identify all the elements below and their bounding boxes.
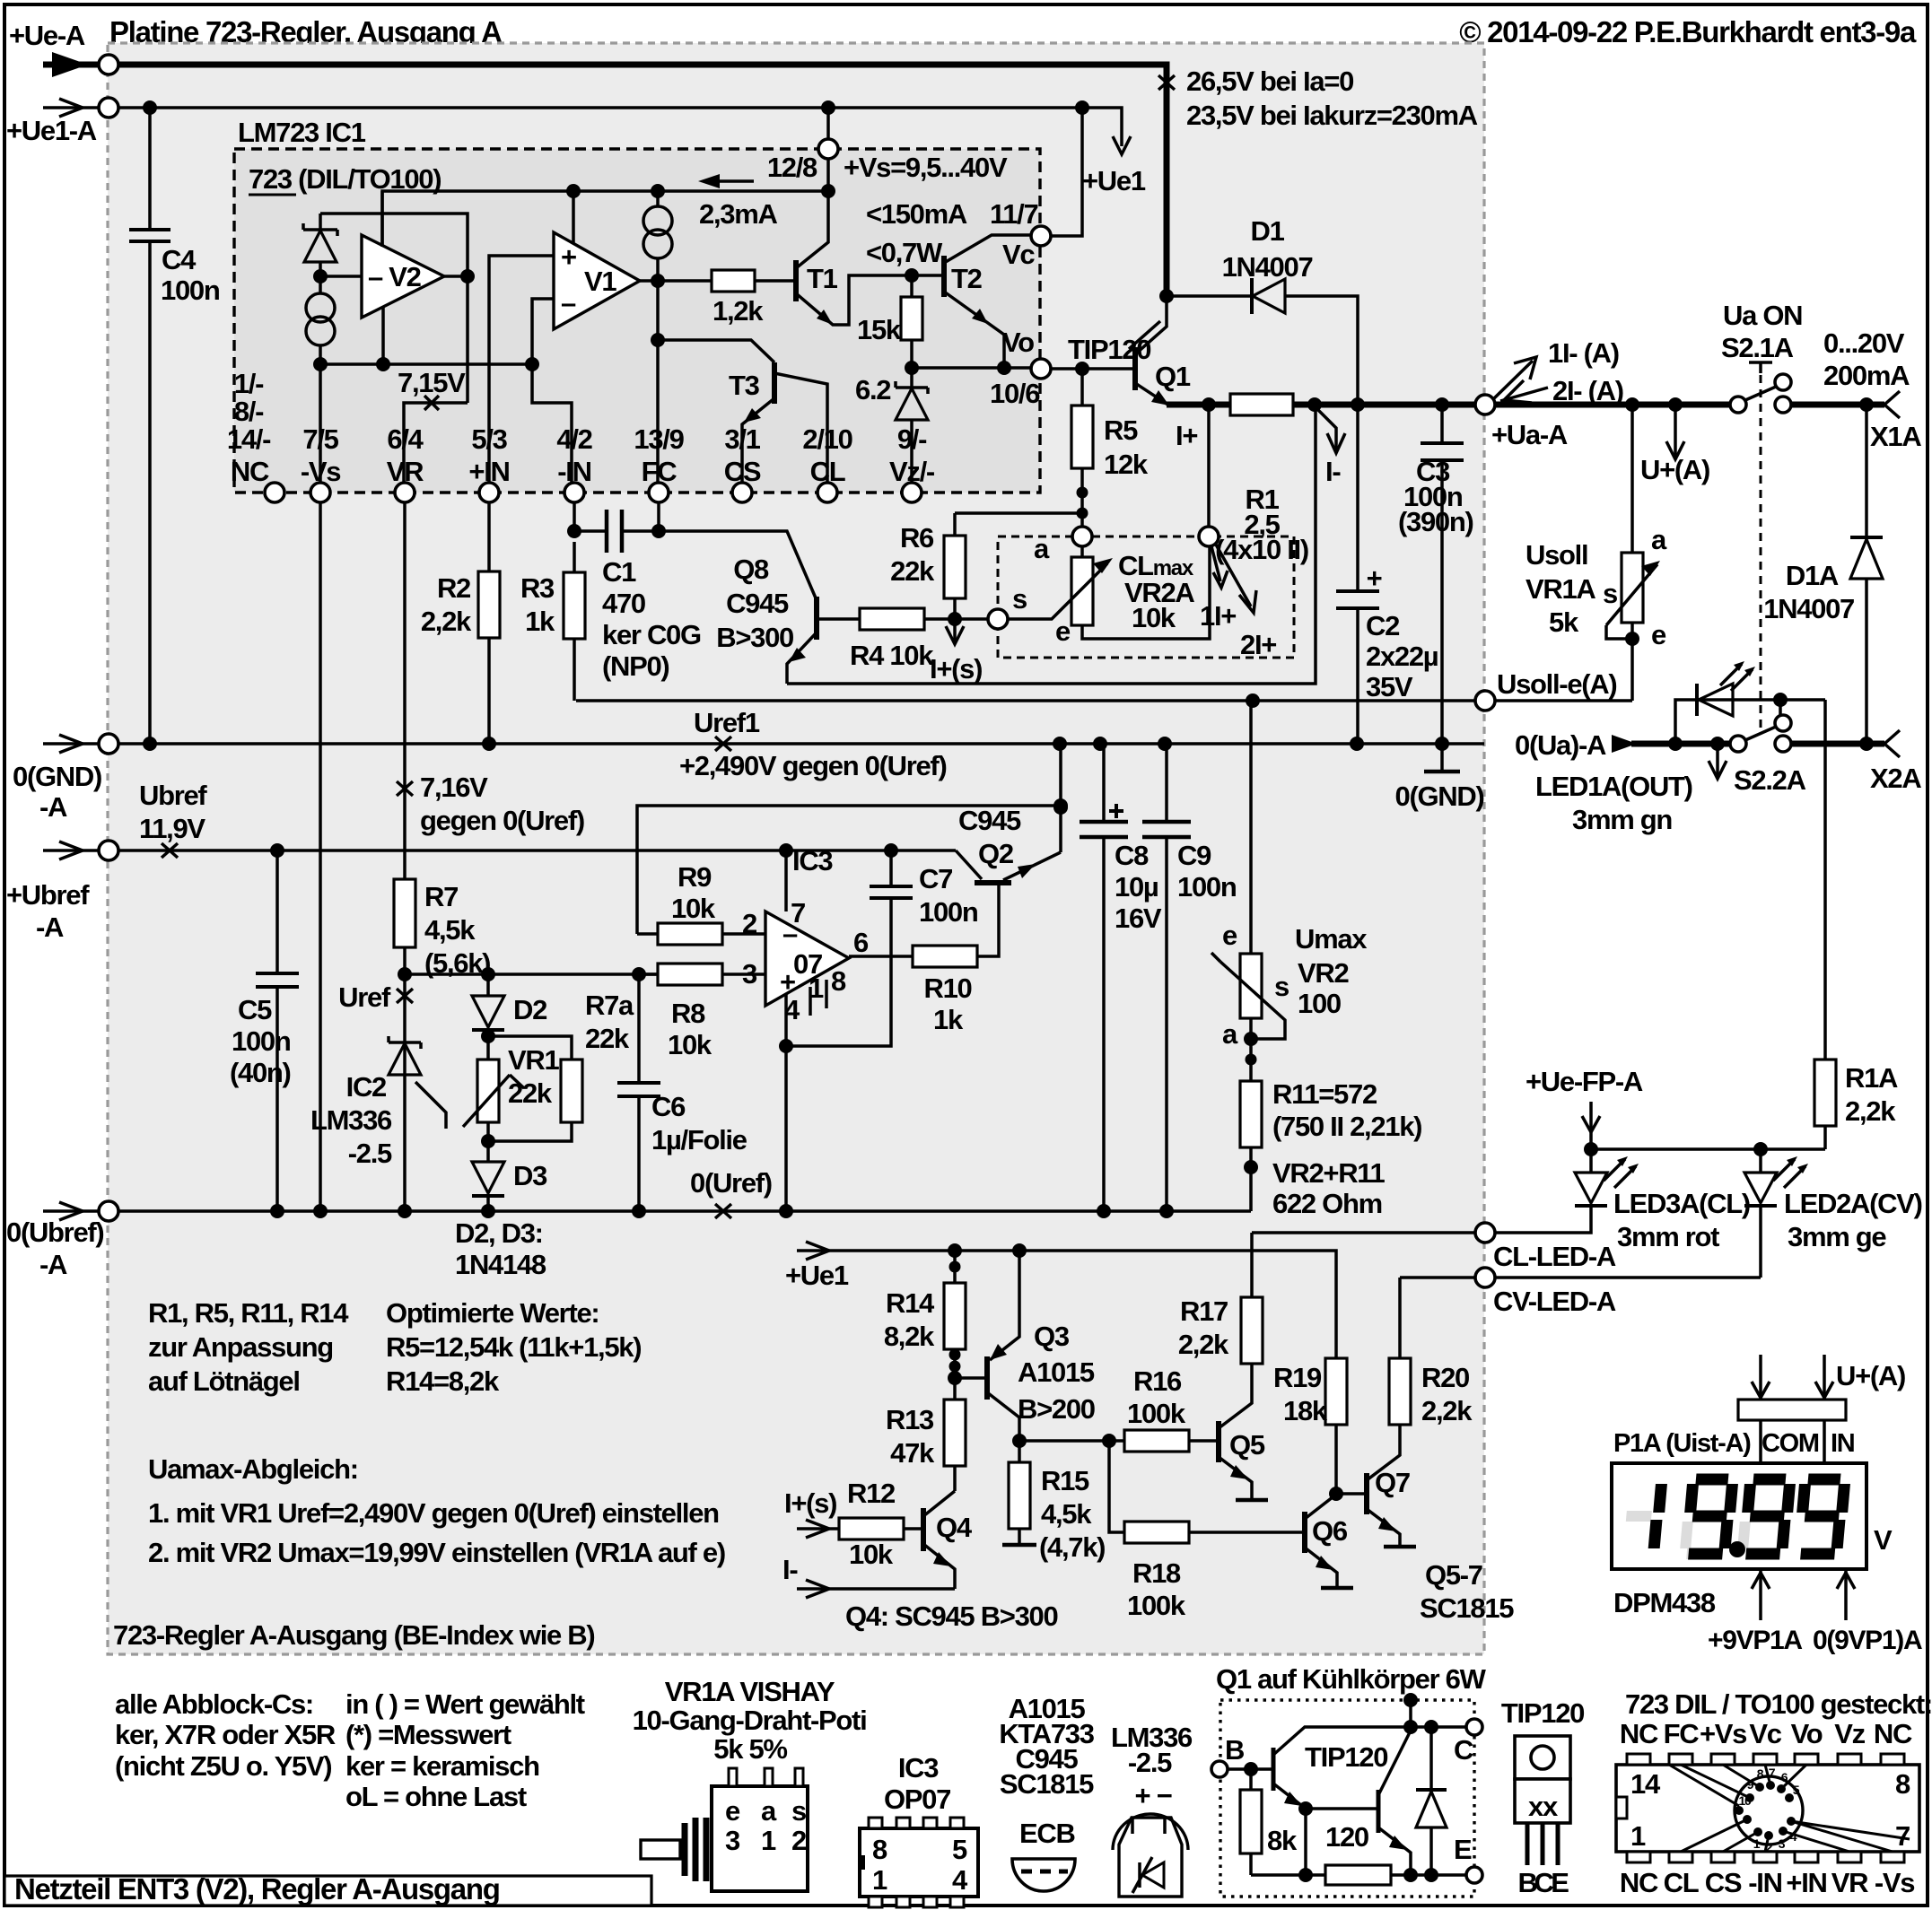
- svg-text:35V: 35V: [1366, 671, 1413, 702]
- resistor R12 10k: [839, 1518, 904, 1539]
- svg-text:6: 6: [853, 927, 869, 958]
- capacitor C9 100n: [1165, 744, 1168, 1211]
- LED3A(CL): [1495, 1149, 1591, 1233]
- svg-text:DPM438: DPM438: [1613, 1587, 1716, 1618]
- transistor Q8 C945: [659, 531, 817, 600]
- resistor R11: [1240, 1081, 1262, 1147]
- svg-text:+Vs=9,5...40V: +Vs=9,5...40V: [844, 152, 1008, 183]
- current arrow 12/8: [718, 179, 754, 183]
- resistor R7 4,5k: [403, 947, 407, 1041]
- svg-text:(nicht Z5U o. Y5V): (nicht Z5U o. Y5V): [115, 1750, 331, 1782]
- node 0(Uref) marker: [715, 1204, 731, 1218]
- svg-text:a: a: [1222, 1018, 1238, 1050]
- svg-text:R9: R9: [678, 861, 712, 893]
- Q8 base wire: [817, 617, 860, 621]
- transistor Q6: [1302, 1512, 1307, 1553]
- resistor R20 2,2k: [1398, 1278, 1402, 1358]
- svg-text:SC1815: SC1815: [1420, 1592, 1514, 1624]
- +Vs pin circle top edge: [826, 108, 830, 191]
- svg-text:<0,7W: <0,7W: [866, 237, 943, 268]
- svg-text:X2A: X2A: [1870, 763, 1921, 794]
- svg-text:Q5-7: Q5-7: [1425, 1559, 1482, 1591]
- Usoll-e(A) line: [576, 699, 1476, 702]
- svg-text:NC: NC: [231, 456, 269, 487]
- svg-text:4/2: 4/2: [556, 423, 591, 455]
- svg-text:NC: NC: [1620, 1867, 1658, 1898]
- svg-text:Ubref: Ubref: [139, 780, 207, 811]
- svg-text:+Ua-A: +Ua-A: [1491, 419, 1568, 450]
- svg-text:+: +: [1367, 563, 1382, 594]
- svg-text:8: 8: [1895, 1768, 1910, 1800]
- FC pin stub: [657, 502, 660, 531]
- +Ue1 lower rail: [827, 1251, 1336, 1358]
- svg-text:C5: C5: [238, 994, 272, 1025]
- 8k resistor: [1249, 1769, 1253, 1875]
- svg-text:622 Ohm: 622 Ohm: [1272, 1188, 1382, 1219]
- resistor R16 100k: [1124, 1430, 1189, 1452]
- svg-text:11,9V: 11,9V: [139, 813, 205, 844]
- svg-text:120: 120: [1325, 1821, 1368, 1853]
- svg-text:R11=572: R11=572: [1272, 1078, 1377, 1110]
- svg-text:100n: 100n: [919, 896, 978, 928]
- transistor Q3 A1015: [948, 1371, 962, 1385]
- svg-text:1I- (A): 1I- (A): [1548, 337, 1619, 369]
- svg-text:(750 II 2,21k): (750 II 2,21k): [1272, 1111, 1421, 1142]
- resistor R3 1k: [573, 542, 576, 701]
- transistor Q7: [1336, 1492, 1367, 1496]
- svg-text:NC: NC: [1874, 1718, 1912, 1749]
- svg-text:22k: 22k: [890, 555, 935, 587]
- svg-text:10k: 10k: [671, 893, 716, 924]
- svg-text:Usoll-e(A): Usoll-e(A): [1497, 668, 1616, 700]
- svg-text:e: e: [1651, 619, 1666, 650]
- svg-text:200mA: 200mA: [1823, 360, 1910, 391]
- transistor Q4: [921, 1508, 926, 1551]
- svg-text:+Ue1: +Ue1: [785, 1260, 849, 1291]
- resistor R14 8,2k: [953, 1251, 957, 1378]
- transistor Q5: [1216, 1421, 1221, 1462]
- svg-text:IN: IN: [1831, 1429, 1854, 1458]
- svg-text:+Ubref: +Ubref: [6, 879, 90, 911]
- svg-text:-IN: -IN: [557, 456, 590, 487]
- wire GND tap: [1059, 744, 1062, 852]
- svg-text:+Ue-A: +Ue-A: [9, 20, 85, 51]
- resistor R19 18k: [1334, 1425, 1338, 1494]
- switch S2.2A: [1730, 736, 1746, 752]
- +Ue1 feed arrow: [797, 1249, 827, 1252]
- svg-text:VR: VR: [1831, 1867, 1868, 1898]
- capacitor C5 100n: [275, 850, 279, 1211]
- X1A terminal: [1884, 391, 1900, 418]
- svg-text:IC3: IC3: [792, 845, 833, 877]
- svg-text:CL-LED-A: CL-LED-A: [1493, 1241, 1616, 1272]
- svg-text:(4,7k): (4,7k): [1039, 1531, 1105, 1563]
- pin7 wire: [784, 850, 788, 911]
- svg-text:0...20V: 0...20V: [1823, 327, 1905, 359]
- node 7,16V marker: [397, 781, 413, 796]
- svg-text:15k: 15k: [857, 314, 902, 345]
- svg-text:B: B: [1225, 1734, 1244, 1766]
- svg-text:<150mA: <150mA: [866, 198, 967, 230]
- svg-text:100n: 100n: [161, 275, 220, 306]
- LED feed line: [1591, 1147, 1825, 1151]
- underline of 723: [249, 194, 296, 196]
- svg-text:Optimierte Werte:: Optimierte Werte:: [386, 1297, 599, 1329]
- LED1A(OUT): [1675, 700, 1825, 744]
- zener IC2 LM336: [403, 1041, 407, 1211]
- R9 feedback line: [637, 806, 1061, 934]
- svg-text:100k: 100k: [1127, 1590, 1186, 1621]
- svg-text:R10: R10: [924, 972, 972, 1004]
- svg-text:VR1A: VR1A: [1525, 573, 1595, 605]
- Usoll vertical to VR2: [1249, 701, 1253, 954]
- svg-text:10-Gang-Draht-Poti: 10-Gang-Draht-Poti: [633, 1705, 867, 1736]
- node Uref marker: [397, 989, 413, 1003]
- resistor R4 10k: [860, 608, 924, 630]
- -Vs pin column: [319, 502, 322, 1211]
- potentiometer VR2A: [1080, 546, 1084, 557]
- svg-text:X1A: X1A: [1870, 421, 1921, 452]
- svg-text:VR1: VR1: [508, 1044, 559, 1076]
- 0(Ubref) 0(Uref) rail: [118, 1209, 1251, 1213]
- svg-text:© 2014-09-22 P.E.Burkhardt ent: © 2014-09-22 P.E.Burkhardt ent3-9a: [1459, 15, 1917, 48]
- svg-text:V: V: [1874, 1524, 1893, 1556]
- svg-text:Netzteil ENT3 (V2), Regler A-A: Netzteil ENT3 (V2), Regler A-Ausgang: [14, 1872, 500, 1906]
- Vo node wire to Q1 base: [1051, 367, 1135, 371]
- svg-text:R14=8,2k: R14=8,2k: [386, 1365, 500, 1397]
- svg-text:10k: 10k: [1132, 602, 1176, 633]
- svg-text:FC: FC: [642, 456, 678, 487]
- Vc to +Ue1 link: [1050, 108, 1082, 236]
- resistor R1 2,5: [1230, 394, 1293, 415]
- svg-text:P1A (Uist-A): P1A (Uist-A): [1613, 1429, 1751, 1458]
- svg-text:C2: C2: [1366, 610, 1399, 641]
- node: [313, 269, 328, 283]
- svg-text:R14: R14: [886, 1287, 935, 1319]
- svg-text:C4: C4: [162, 244, 197, 275]
- svg-text:5: 5: [952, 1834, 967, 1865]
- svg-text:e: e: [1055, 615, 1071, 647]
- svg-text:1N4148: 1N4148: [455, 1249, 546, 1280]
- svg-text:R12: R12: [847, 1478, 895, 1509]
- +Ua-A thick bus: [1167, 402, 1476, 408]
- svg-text:I+(s): I+(s): [930, 653, 982, 685]
- svg-text:4,5k: 4,5k: [1041, 1498, 1092, 1530]
- svg-text:s: s: [791, 1795, 806, 1827]
- svg-text:NC: NC: [1620, 1718, 1658, 1749]
- pin circles bottom edge: [265, 483, 284, 502]
- svg-text:Q4: SC945 B>300: Q4: SC945 B>300: [845, 1600, 1057, 1632]
- pin4 wire with C7 return: [784, 994, 788, 1211]
- capacitor C3 100n: [1440, 405, 1444, 744]
- svg-text:CL: CL: [1664, 1867, 1699, 1898]
- svg-text:Uref1: Uref1: [694, 707, 760, 738]
- svg-text:LM336: LM336: [310, 1104, 392, 1136]
- svg-text:8: 8: [872, 1834, 887, 1865]
- svg-text:2: 2: [791, 1825, 806, 1856]
- svg-text:0(Ua)-A: 0(Ua)-A: [1515, 729, 1606, 761]
- svg-text:a: a: [1034, 533, 1050, 564]
- x marker 26,5V: [1158, 75, 1175, 90]
- svg-text:D3: D3: [513, 1160, 547, 1191]
- FC column: [656, 281, 660, 493]
- svg-text:470: 470: [602, 588, 645, 619]
- svg-text:T2: T2: [951, 263, 982, 294]
- svg-text:Ua ON: Ua ON: [1723, 300, 1802, 331]
- svg-text:a: a: [761, 1795, 777, 1827]
- svg-text:+: +: [561, 241, 576, 273]
- svg-text:3mm gn: 3mm gn: [1572, 804, 1672, 835]
- V1 output node: [640, 279, 712, 283]
- svg-text:R2: R2: [437, 572, 470, 604]
- svg-text:Vo: Vo: [1002, 327, 1034, 358]
- svg-text:R3: R3: [520, 572, 555, 604]
- svg-text:Vc: Vc: [1749, 1718, 1781, 1749]
- svg-text:R18: R18: [1132, 1557, 1181, 1589]
- resistor R1A 2,2k: [1823, 700, 1827, 1149]
- svg-text:-A: -A: [39, 791, 67, 823]
- resistor R7a 22k: [488, 1036, 572, 1060]
- svg-text:R4 10k: R4 10k: [850, 640, 934, 671]
- internal top rail: [382, 191, 828, 245]
- svg-text:Vz/-: Vz/-: [889, 456, 935, 487]
- svg-text:2: 2: [742, 908, 756, 939]
- svg-text:7,16V: 7,16V: [420, 772, 488, 803]
- svg-text:S2.2A: S2.2A: [1734, 764, 1806, 796]
- svg-text:1: 1: [1630, 1820, 1646, 1852]
- svg-text:I+(s): I+(s): [784, 1487, 836, 1519]
- svg-text:4: 4: [952, 1864, 968, 1896]
- svg-text:C945: C945: [958, 805, 1021, 836]
- 1I+ 2I+ arrows: [1211, 546, 1220, 581]
- svg-text:1N4007: 1N4007: [1763, 593, 1854, 624]
- svg-text:R5=12,54k (11k+1,5k): R5=12,54k (11k+1,5k): [386, 1331, 641, 1363]
- CLmax VR2A dashed box: [998, 536, 1294, 658]
- X2A terminal: [1884, 730, 1900, 757]
- svg-text:I-: I-: [782, 1554, 798, 1585]
- svg-text:V1: V1: [584, 266, 616, 297]
- U+(A) annotation arrow: [1674, 405, 1677, 456]
- svg-text:B>300: B>300: [716, 622, 793, 653]
- svg-text:R19: R19: [1273, 1362, 1322, 1393]
- svg-text:100n: 100n: [1177, 871, 1237, 903]
- svg-text:Umax: Umax: [1295, 923, 1368, 955]
- capacitor C6 1u/Folie: [637, 974, 641, 1211]
- svg-text:– V2: – V2: [368, 261, 421, 292]
- svg-text:12/8: 12/8: [767, 152, 817, 183]
- Platine PCB region: [108, 43, 1484, 1654]
- svg-text:R5: R5: [1104, 414, 1138, 446]
- transistor T3: [658, 340, 774, 362]
- svg-text:0(GND): 0(GND): [13, 761, 101, 792]
- svg-text:D1: D1: [1250, 215, 1284, 247]
- svg-text:E: E: [1454, 1834, 1472, 1865]
- svg-text:+9VP1A: +9VP1A: [1708, 1626, 1802, 1655]
- svg-text:10/6: 10/6: [990, 378, 1040, 409]
- diode in Kuehlkoerper: [1429, 1727, 1433, 1875]
- svg-text:Q2: Q2: [978, 838, 1013, 869]
- svg-text:7,15V: 7,15V: [398, 367, 466, 398]
- svg-text:2/10: 2/10: [802, 423, 852, 455]
- svg-text:3mm ge: 3mm ge: [1788, 1221, 1886, 1252]
- svg-text:2I+: 2I+: [1240, 629, 1276, 660]
- ground 0(GND): [1440, 744, 1444, 772]
- I+ wire down to CLmax box: [1207, 405, 1211, 527]
- svg-text:FC: FC: [1664, 1718, 1700, 1749]
- svg-text:CS: CS: [1705, 1867, 1742, 1898]
- svg-text:A1015: A1015: [1018, 1356, 1095, 1388]
- svg-text:1: 1: [872, 1864, 887, 1896]
- -IN column to C1: [573, 502, 576, 531]
- resistor R8 10k: [639, 972, 658, 976]
- svg-text:(390n): (390n): [1398, 506, 1473, 537]
- svg-text:+ −: + −: [1135, 1780, 1172, 1811]
- svg-text:TIP120: TIP120: [1068, 334, 1150, 365]
- svg-text:2,2k: 2,2k: [1421, 1395, 1473, 1426]
- svg-text:47k: 47k: [890, 1437, 935, 1469]
- svg-text:a: a: [1651, 524, 1667, 555]
- +Ue1 rail: [118, 108, 1122, 146]
- svg-text:1µ/Folie: 1µ/Folie: [651, 1124, 747, 1156]
- capacitor C8 10u: [1102, 744, 1106, 1211]
- svg-text:U+(A): U+(A): [1836, 1360, 1905, 1391]
- svg-text:1/-: 1/-: [234, 368, 264, 399]
- svg-text:3/1: 3/1: [724, 423, 760, 455]
- svg-text:R20: R20: [1421, 1362, 1469, 1393]
- Q8 emitter line to I- column: [787, 405, 1316, 684]
- 7-seg digits 19.99: [1626, 1479, 1845, 1557]
- svg-text:2,2k: 2,2k: [1845, 1095, 1896, 1127]
- svg-text:R6: R6: [900, 522, 934, 554]
- svg-text:VR: VR: [387, 456, 424, 487]
- transistor T2: [941, 256, 947, 297]
- +Ue-A thick bus wire: [118, 65, 1167, 296]
- svg-text:-Vs: -Vs: [1875, 1867, 1914, 1898]
- svg-text:R13: R13: [886, 1404, 934, 1435]
- svg-text:B>200: B>200: [1018, 1393, 1095, 1425]
- svg-text:(*) =Messwert: (*) =Messwert: [345, 1719, 511, 1750]
- svg-text:Q4: Q4: [936, 1512, 973, 1543]
- svg-text:Usoll: Usoll: [1525, 539, 1587, 571]
- svg-text:13/9: 13/9: [634, 423, 684, 455]
- svg-text:-A: -A: [36, 911, 64, 943]
- svg-text:100: 100: [1298, 988, 1341, 1019]
- Usoll-e wire outside: [1495, 699, 1632, 702]
- zener 6.2: [910, 368, 914, 388]
- node Uref1: [715, 737, 731, 751]
- transistor Q1 TIP120: [1132, 347, 1138, 390]
- svg-text:Uref: Uref: [338, 981, 391, 1013]
- svg-text:ker, X7R oder X5R: ker, X7R oder X5R: [115, 1719, 336, 1750]
- svg-text:0(9VP1)A: 0(9VP1)A: [1813, 1626, 1922, 1655]
- svg-text:10µ: 10µ: [1115, 871, 1158, 903]
- svg-text:26,5V bei Ia=0: 26,5V bei Ia=0: [1186, 65, 1353, 97]
- DPM438 panel meter: [1761, 1355, 1824, 1400]
- potentiometer VR2 Umax: [1240, 954, 1262, 1018]
- svg-text:2. mit VR2 Umax=19,99V einstel: 2. mit VR2 Umax=19,99V einstellen (VR1A …: [148, 1537, 725, 1568]
- svg-text:C7: C7: [919, 863, 952, 894]
- transistor T1: [793, 260, 799, 301]
- svg-text:R1, R5, R11, R14: R1, R5, R11, R14: [148, 1297, 349, 1329]
- 1I- 2I- annotation arrows: [1493, 361, 1533, 399]
- svg-text:Q1: Q1: [1155, 361, 1191, 392]
- svg-text:1,2k: 1,2k: [712, 295, 764, 327]
- svg-text:5k: 5k: [1549, 606, 1579, 638]
- potentiometer VR1 22k: [477, 1060, 499, 1122]
- svg-text:5/3: 5/3: [471, 423, 507, 455]
- svg-text:6.2: 6.2: [855, 374, 890, 406]
- svg-text:s: s: [1274, 971, 1289, 1002]
- resistor 15k: [910, 275, 914, 368]
- svg-text:+IN: +IN: [468, 456, 509, 487]
- svg-text:10k: 10k: [849, 1539, 894, 1570]
- svg-text:2I- (A): 2I- (A): [1552, 375, 1623, 406]
- Vo node line: [912, 366, 1030, 370]
- svg-text:TIP120: TIP120: [1501, 1697, 1584, 1729]
- bottom rail with 120 resistor: [1251, 1873, 1466, 1877]
- svg-text:+Vs: +Vs: [1700, 1718, 1746, 1749]
- resistor R6 22k: [955, 511, 1082, 515]
- svg-text:6/4: 6/4: [387, 423, 424, 455]
- V1 supply stub: [572, 191, 575, 244]
- I+(s) annotation arrow: [953, 619, 957, 641]
- svg-text:R15: R15: [1041, 1465, 1089, 1496]
- svg-text:8,2k: 8,2k: [884, 1321, 935, 1352]
- svg-text:LM723 IC1: LM723 IC1: [238, 117, 366, 148]
- V1 inv routing: [532, 299, 572, 493]
- wire zener top to V2 output column: [320, 214, 468, 403]
- svg-text:C: C: [1454, 1734, 1473, 1766]
- svg-text:gegen 0(Uref): gegen 0(Uref): [420, 805, 584, 836]
- diode D1A 1N4007: [1865, 405, 1868, 744]
- diode D1 1N4007: [1167, 294, 1252, 298]
- svg-text:s: s: [1603, 578, 1617, 609]
- resistor R9 10k: [637, 932, 658, 936]
- svg-text:2,2k: 2,2k: [1178, 1329, 1229, 1360]
- svg-text:2,2k: 2,2k: [421, 606, 472, 637]
- wire to V2 inverting input: [320, 275, 362, 278]
- op-amp V1: [554, 232, 640, 329]
- svg-text:COM: COM: [1762, 1429, 1819, 1458]
- svg-text:TIP120: TIP120: [1305, 1741, 1387, 1773]
- svg-text:1N4007: 1N4007: [1222, 251, 1313, 283]
- svg-text:8/-: 8/-: [234, 396, 264, 427]
- svg-text:22k: 22k: [508, 1077, 553, 1109]
- resistor R18 100k: [1109, 1441, 1124, 1532]
- svg-text:3: 3: [725, 1825, 740, 1856]
- svg-text:0(GND): 0(GND): [1395, 781, 1484, 812]
- svg-text:CS: CS: [724, 456, 761, 487]
- resistor R5 12k: [1080, 369, 1084, 406]
- svg-text:zur Anpassung: zur Anpassung: [148, 1331, 333, 1363]
- svg-text:CL: CL: [810, 456, 845, 487]
- node dots top rail: [566, 184, 581, 198]
- svg-text:D2: D2: [513, 994, 546, 1025]
- svg-text:C1: C1: [602, 556, 636, 588]
- svg-text:100k: 100k: [1127, 1398, 1186, 1429]
- svg-text:(40n): (40n): [230, 1057, 291, 1088]
- svg-text:VR2+R11: VR2+R11: [1272, 1157, 1386, 1189]
- svg-text:1k: 1k: [525, 606, 555, 637]
- svg-text:1. mit VR1 Uref=2,490V gegen 0: 1. mit VR1 Uref=2,490V gegen 0(Uref) ein…: [148, 1497, 719, 1529]
- svg-text:Q6: Q6: [1312, 1515, 1348, 1547]
- resistor R15 4,5k: [1012, 1434, 1027, 1448]
- svg-text:VR2: VR2: [1298, 957, 1348, 989]
- svg-text:723-Regler A-Ausgang (BE-Index: 723-Regler A-Ausgang (BE-Index wie B): [113, 1619, 594, 1651]
- svg-text:1k: 1k: [933, 1004, 964, 1035]
- resistor R2 2,2k: [487, 502, 491, 744]
- diode D2: [486, 974, 490, 996]
